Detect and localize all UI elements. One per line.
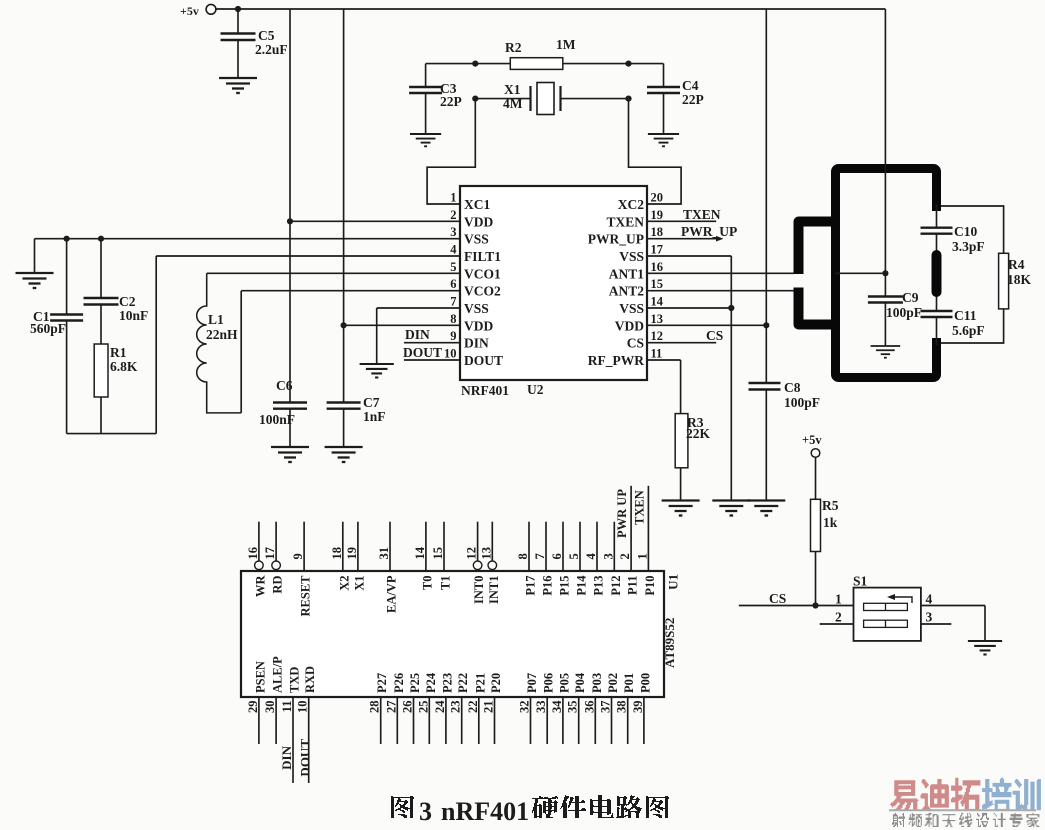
svg-text:C10: C10 (954, 224, 977, 239)
svg-text:P25: P25 (408, 673, 422, 693)
svg-text:9: 9 (291, 553, 305, 559)
svg-text:6: 6 (550, 553, 564, 559)
svg-text:PWR UP: PWR UP (615, 489, 629, 538)
svg-text:P00: P00 (638, 673, 652, 693)
svg-text:2.2uF: 2.2uF (255, 42, 288, 57)
svg-text:1k: 1k (823, 515, 838, 530)
svg-text:P21: P21 (473, 673, 487, 693)
svg-text:1: 1 (635, 553, 649, 559)
svg-text:7: 7 (450, 295, 456, 309)
svg-text:C5: C5 (258, 28, 275, 43)
svg-text:P02: P02 (606, 673, 620, 693)
svg-text:DIN: DIN (464, 336, 489, 351)
svg-text:INT0: INT0 (472, 576, 486, 604)
svg-text:4M: 4M (503, 96, 523, 111)
svg-text:FILT1: FILT1 (464, 249, 501, 264)
svg-text:1nF: 1nF (363, 409, 386, 424)
svg-text:13: 13 (651, 312, 664, 326)
svg-text:P26: P26 (392, 673, 406, 693)
svg-text:RF_PWR: RF_PWR (588, 353, 644, 368)
svg-text:VSS: VSS (464, 301, 489, 316)
svg-text:P06: P06 (542, 673, 556, 693)
svg-text:PWR_UP: PWR_UP (588, 232, 644, 247)
svg-text:P23: P23 (440, 673, 454, 693)
svg-text:16: 16 (246, 547, 260, 560)
svg-text:32: 32 (518, 701, 532, 714)
svg-text:ANT1: ANT1 (609, 266, 645, 281)
svg-text:22K: 22K (686, 426, 711, 441)
svg-text:P10: P10 (643, 576, 657, 596)
svg-text:20: 20 (651, 191, 664, 205)
svg-text:5.6pF: 5.6pF (952, 323, 985, 338)
svg-text:VSS: VSS (619, 301, 644, 316)
svg-text:XC2: XC2 (618, 197, 644, 212)
svg-text:36: 36 (582, 701, 596, 714)
svg-text:15: 15 (651, 277, 664, 291)
svg-text:P15: P15 (558, 576, 572, 596)
svg-text:TXEN: TXEN (683, 207, 721, 222)
svg-text:P05: P05 (557, 673, 571, 693)
svg-text:L1: L1 (208, 312, 224, 327)
svg-text:VDD: VDD (615, 318, 644, 333)
svg-text:TXEN: TXEN (633, 490, 647, 525)
svg-text:3: 3 (419, 797, 432, 826)
svg-text:4: 4 (450, 243, 457, 257)
svg-text:1: 1 (835, 592, 842, 607)
svg-text:10: 10 (296, 701, 310, 714)
svg-text:VCO2: VCO2 (464, 284, 501, 299)
svg-text:DOUT: DOUT (464, 353, 503, 368)
svg-text:R1: R1 (110, 345, 127, 360)
svg-text:P11: P11 (626, 576, 640, 595)
svg-text:+5v: +5v (802, 433, 822, 447)
svg-text:TXD: TXD (288, 667, 302, 693)
svg-text:100pF: 100pF (886, 305, 922, 320)
svg-text:29: 29 (246, 701, 260, 714)
svg-text:DIN: DIN (279, 745, 294, 769)
svg-text:P04: P04 (573, 672, 587, 693)
svg-text:X1: X1 (504, 82, 521, 97)
svg-text:C8: C8 (784, 380, 801, 395)
svg-text:3: 3 (450, 225, 456, 239)
svg-text:P12: P12 (609, 576, 623, 596)
svg-text:37: 37 (599, 701, 613, 714)
svg-text:22nH: 22nH (206, 327, 238, 342)
svg-text:31: 31 (377, 547, 391, 560)
svg-text:+5v: +5v (180, 4, 199, 18)
svg-text:17: 17 (263, 547, 277, 560)
svg-text:P16: P16 (541, 576, 555, 596)
svg-text:560pF: 560pF (30, 321, 66, 336)
svg-text:28: 28 (368, 701, 382, 714)
svg-text:3: 3 (601, 553, 615, 559)
svg-text:8: 8 (516, 553, 530, 559)
svg-text:ANT2: ANT2 (609, 284, 645, 299)
svg-text:VSS: VSS (464, 232, 489, 247)
svg-text:DOUT: DOUT (403, 345, 442, 360)
svg-text:5: 5 (567, 553, 581, 559)
svg-text:17: 17 (651, 243, 664, 257)
svg-text:P17: P17 (524, 576, 538, 596)
svg-text:nRF401: nRF401 (441, 797, 529, 826)
svg-text:P03: P03 (590, 673, 604, 693)
svg-text:26: 26 (401, 701, 415, 714)
svg-text:1: 1 (450, 191, 456, 205)
svg-text:DIN: DIN (405, 327, 430, 342)
svg-text:24: 24 (433, 700, 447, 713)
svg-text:22: 22 (466, 701, 480, 714)
svg-text:TXEN: TXEN (606, 214, 644, 229)
svg-text:2: 2 (618, 553, 632, 559)
svg-text:CS: CS (627, 336, 644, 351)
svg-text:INT1: INT1 (487, 576, 501, 604)
svg-text:11: 11 (280, 701, 294, 713)
svg-text:C6: C6 (276, 378, 293, 393)
svg-text:RESET: RESET (299, 575, 313, 617)
svg-text:U2: U2 (527, 382, 544, 397)
svg-text:NRF401: NRF401 (461, 383, 509, 398)
svg-text:18: 18 (330, 547, 344, 560)
svg-text:C4: C4 (682, 78, 699, 93)
svg-text:P14: P14 (575, 575, 589, 596)
svg-text:P07: P07 (525, 673, 539, 693)
svg-text:38: 38 (615, 701, 629, 714)
svg-text:4: 4 (926, 592, 933, 607)
svg-text:4: 4 (584, 553, 598, 560)
svg-text:T0: T0 (420, 576, 434, 591)
svg-text:X2: X2 (337, 576, 351, 591)
svg-text:T1: T1 (439, 576, 453, 591)
svg-text:C7: C7 (363, 395, 380, 410)
svg-text:VDD: VDD (464, 214, 493, 229)
svg-text:12: 12 (651, 329, 664, 343)
svg-text:10: 10 (444, 347, 457, 361)
svg-text:P20: P20 (489, 673, 503, 693)
svg-text:23: 23 (449, 701, 463, 714)
svg-text:14: 14 (651, 295, 664, 309)
svg-text:C2: C2 (119, 294, 136, 309)
svg-text:21: 21 (482, 701, 496, 714)
svg-text:19: 19 (651, 208, 664, 222)
svg-text:VSS: VSS (619, 249, 644, 264)
svg-text:3: 3 (926, 610, 933, 625)
svg-text:P27: P27 (375, 673, 389, 693)
svg-text:35: 35 (566, 701, 580, 714)
svg-text:S1: S1 (853, 574, 868, 589)
svg-text:VDD: VDD (464, 318, 493, 333)
svg-text:34: 34 (550, 700, 564, 713)
svg-text:2: 2 (835, 610, 842, 625)
svg-text:13: 13 (479, 547, 493, 560)
svg-text:27: 27 (384, 701, 398, 714)
svg-text:C9: C9 (902, 290, 919, 305)
svg-text:EA/VP: EA/VP (385, 575, 399, 613)
svg-text:P22: P22 (456, 673, 470, 693)
svg-text:P24: P24 (424, 672, 438, 693)
svg-text:10nF: 10nF (119, 308, 148, 323)
svg-text:14: 14 (413, 546, 427, 559)
svg-text:XC1: XC1 (464, 197, 490, 212)
svg-text:PSEN: PSEN (253, 661, 267, 693)
svg-text:16: 16 (651, 260, 664, 274)
svg-text:22P: 22P (440, 94, 462, 109)
svg-text:19: 19 (345, 547, 359, 560)
svg-text:8: 8 (450, 312, 456, 326)
svg-text:2: 2 (450, 208, 456, 222)
svg-text:100pF: 100pF (784, 395, 820, 410)
svg-text:CS: CS (769, 591, 786, 606)
svg-text:6.8K: 6.8K (110, 359, 138, 374)
svg-text:CS: CS (706, 328, 723, 343)
svg-text:PWR_UP: PWR_UP (681, 224, 737, 239)
svg-text:1M: 1M (556, 37, 576, 52)
svg-text:RD: RD (271, 576, 285, 594)
svg-text:AT89S52: AT89S52 (662, 618, 677, 668)
svg-text:100nF: 100nF (259, 412, 295, 427)
svg-text:11: 11 (651, 347, 663, 361)
svg-text:6: 6 (450, 277, 456, 291)
svg-text:RXD: RXD (303, 666, 317, 693)
svg-text:X1: X1 (352, 576, 366, 591)
svg-text:25: 25 (416, 701, 430, 714)
svg-text:R4: R4 (1008, 257, 1025, 272)
svg-text:7: 7 (533, 553, 547, 559)
svg-text:R2: R2 (505, 40, 522, 55)
svg-text:3.3pF: 3.3pF (952, 239, 985, 254)
svg-text:9: 9 (450, 329, 456, 343)
svg-text:39: 39 (631, 701, 645, 714)
svg-text:P01: P01 (622, 673, 636, 693)
svg-text:P13: P13 (592, 576, 606, 596)
svg-text:5: 5 (450, 260, 456, 274)
svg-text:WR: WR (253, 575, 267, 598)
svg-text:12: 12 (465, 547, 479, 560)
svg-text:ALE/P: ALE/P (271, 656, 285, 693)
svg-text:30: 30 (263, 701, 277, 714)
svg-text:22P: 22P (682, 92, 704, 107)
svg-text:18: 18 (651, 225, 664, 239)
svg-text:R5: R5 (822, 498, 839, 513)
svg-text:U1: U1 (666, 574, 681, 590)
svg-text:15: 15 (431, 547, 445, 560)
svg-text:DOUT: DOUT (298, 739, 313, 777)
svg-text:VCO1: VCO1 (464, 266, 501, 281)
svg-text:C11: C11 (954, 308, 977, 323)
svg-text:18K: 18K (1007, 272, 1032, 287)
svg-text:33: 33 (534, 701, 548, 714)
